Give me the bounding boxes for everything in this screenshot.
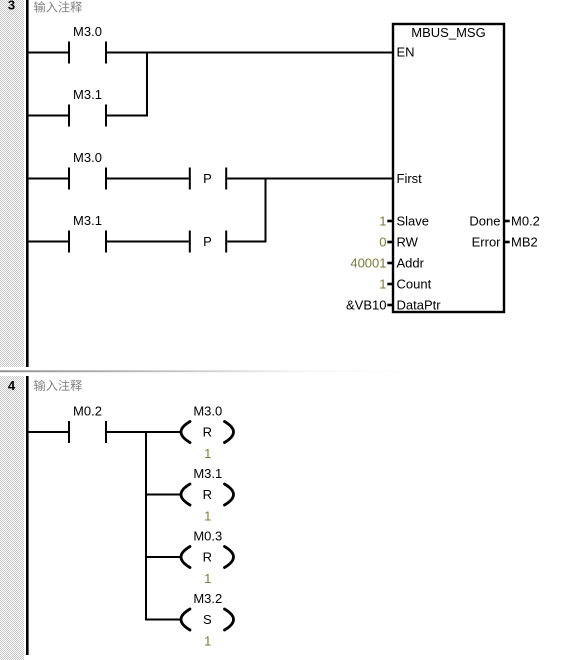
svg-text:1: 1: [379, 214, 386, 229]
svg-text:Done: Done: [469, 214, 500, 229]
pin First: [397, 171, 423, 186]
svg-text:M3.0: M3.0: [193, 404, 222, 419]
svg-text:Addr: Addr: [397, 256, 425, 271]
svg-text:S: S: [203, 612, 212, 627]
svg-text:R: R: [203, 425, 212, 440]
pin Slave with stub: [387, 214, 429, 229]
network separator line: [0, 370, 420, 372]
svg-text:0: 0: [379, 235, 386, 250]
value 1 on pin Count: [379, 277, 386, 292]
wire contact M3.0 to block EN: [107, 52, 393, 54]
pin EN: [397, 45, 415, 60]
svg-text:3: 3: [8, 0, 15, 13]
value 0 on pin RW: [379, 235, 386, 250]
wire edge contact P to block First: [227, 178, 393, 180]
value 1 on pin Slave: [379, 214, 386, 229]
network 3 number gutter: [0, 0, 24, 367]
svg-text:40001: 40001: [350, 256, 386, 271]
junction vertical branch for coils: [145, 431, 147, 621]
wire branch to coil M3.2: [147, 619, 183, 621]
svg-text:1: 1: [204, 509, 211, 524]
contact M3.1 (rung 2): [68, 87, 107, 127]
network 3 comment 输入注释: [34, 1, 82, 12]
svg-text:M3.0: M3.0: [73, 24, 102, 39]
wire edge contact P rung4 to junction: [227, 241, 266, 243]
svg-text:M0.3: M0.3: [193, 529, 222, 544]
svg-text:1: 1: [204, 446, 211, 461]
network 4 comment 输入注释: [34, 380, 82, 391]
wire rail to contact M0.2: [29, 431, 68, 433]
svg-text:MB2: MB2: [511, 235, 538, 250]
value 40001 on pin Addr: [350, 256, 386, 271]
svg-text:M3.1: M3.1: [193, 466, 222, 481]
contact M3.0 (rung 1): [68, 24, 107, 64]
wire contact M0.2 to coil branch: [107, 431, 182, 433]
svg-text:&VB10: &VB10: [346, 298, 386, 313]
svg-text:Slave: Slave: [397, 214, 430, 229]
svg-text:DataPtr: DataPtr: [397, 298, 442, 313]
svg-text:M3.1: M3.1: [73, 87, 102, 102]
wire rail to contact M3.0 rung1: [29, 52, 68, 54]
pin Error with stub: [472, 235, 510, 250]
pin RW with stub: [387, 235, 418, 250]
wire branch to coil M0.3: [147, 556, 183, 558]
wire contact M3.1 to edge contact P rung4: [107, 241, 189, 243]
value &VB10 on pin DataPtr: [346, 298, 386, 313]
svg-text:1: 1: [379, 277, 386, 292]
svg-text:1: 1: [204, 634, 211, 649]
svg-text:Error: Error: [472, 235, 502, 250]
coil M0.3 (R) with value 1: [181, 529, 234, 587]
wire rail to contact M3.1 rung4: [29, 241, 68, 243]
svg-text:MBUS_MSG: MBUS_MSG: [411, 25, 485, 40]
coil M3.1 (R) with value 1: [181, 466, 234, 524]
svg-text:P: P: [203, 171, 212, 186]
svg-text:M0.2: M0.2: [73, 404, 102, 419]
network 4 number gutter: [0, 376, 24, 660]
contact M3.1 (rung 4): [68, 213, 107, 253]
contact M3.0 (rung 3): [68, 150, 107, 190]
junction OR-branch rung3/rung4: [265, 178, 267, 243]
svg-text:M3.2: M3.2: [193, 591, 222, 606]
svg-text:Count: Count: [397, 277, 432, 292]
pin Count with stub: [387, 277, 431, 292]
svg-text:First: First: [397, 171, 423, 186]
coil M3.2 (S) with value 1: [181, 591, 234, 649]
wire contact M3.1 to junction: [107, 115, 148, 117]
svg-text:4: 4: [8, 378, 16, 393]
svg-text:M0.2: M0.2: [511, 214, 540, 229]
left power rail network 4: [26, 376, 29, 655]
left power rail network 3: [26, 0, 29, 367]
svg-text:EN: EN: [397, 45, 415, 60]
pin Addr with stub: [387, 256, 424, 271]
svg-text:P: P: [203, 234, 212, 249]
wire contact M3.0 to edge contact P rung3: [107, 178, 189, 180]
positive edge contact P (rung 3): [189, 168, 227, 190]
operand M0.2 on pin Done: [511, 214, 540, 229]
contact M0.2: [68, 404, 107, 444]
svg-text:1: 1: [204, 571, 211, 586]
svg-text:R: R: [203, 550, 212, 565]
coil M3.0 (R) with value 1: [181, 404, 234, 462]
pin DataPtr with stub: [387, 298, 441, 313]
svg-text:RW: RW: [397, 235, 419, 250]
wire rail to contact M3.0 rung3: [29, 178, 68, 180]
junction OR-branch rung1/rung2: [146, 52, 148, 117]
svg-text:R: R: [203, 487, 212, 502]
wire rail to contact M3.1 rung2: [29, 115, 68, 117]
svg-text:M3.0: M3.0: [73, 150, 102, 165]
pin Done with stub: [469, 214, 509, 229]
function block MBUS_MSG: [393, 24, 504, 312]
operand MB2 on pin Error: [511, 235, 538, 250]
positive edge contact P (rung 4): [189, 231, 227, 253]
wire branch to coil M3.1: [147, 494, 183, 496]
svg-text:M3.1: M3.1: [73, 213, 102, 228]
